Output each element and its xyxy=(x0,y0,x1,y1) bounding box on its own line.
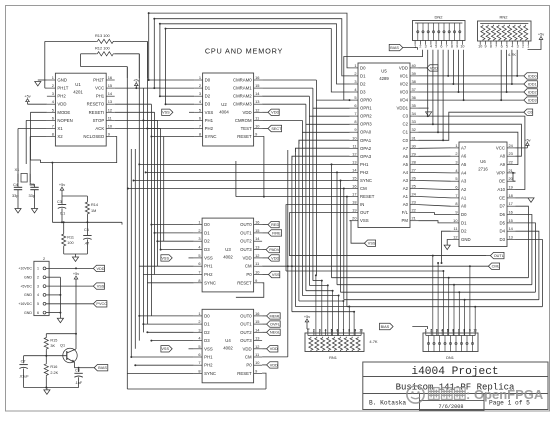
svg-text:4: 4 xyxy=(37,293,39,297)
svg-text:2: 2 xyxy=(354,71,356,76)
svg-text:VDD: VDD xyxy=(399,65,408,70)
svg-text:VSS: VSS xyxy=(161,256,169,260)
ground at U6 GND pin12 xyxy=(444,240,450,250)
svg-text:A7: A7 xyxy=(403,146,409,151)
svg-text:C7: C7 xyxy=(21,360,26,364)
svg-text:U3: U3 xyxy=(225,247,231,252)
svg-text:2: 2 xyxy=(37,276,39,280)
svg-text:C8: C8 xyxy=(75,368,80,372)
flag C0 xyxy=(524,109,533,115)
svg-text:38: 38 xyxy=(412,79,416,84)
svg-text:6: 6 xyxy=(336,329,338,333)
svg-text:VDD: VDD xyxy=(243,346,252,351)
wire mid vertical bus xyxy=(127,41,163,389)
svg-text:15: 15 xyxy=(108,83,112,88)
ground bottom rail Q1 xyxy=(24,387,79,395)
flag VSS at U2 pin5 xyxy=(162,109,194,115)
svg-text:PH1T: PH1T xyxy=(57,86,68,91)
svg-text:A1: A1 xyxy=(461,195,467,200)
svg-text:R16: R16 xyxy=(50,365,57,369)
wire I/O lines to IOD flags xyxy=(419,76,524,100)
svg-text:VSS: VSS xyxy=(272,273,280,277)
svg-text:i4004 Project: i4004 Project xyxy=(411,366,498,378)
svg-text:7: 7 xyxy=(198,270,200,275)
svg-text:RED: RED xyxy=(271,223,279,227)
svg-text:OPA1: OPA1 xyxy=(360,138,372,143)
flag VDD at U5 pin40 xyxy=(419,65,439,71)
svg-text:D2: D2 xyxy=(204,239,210,244)
svg-text:A9: A9 xyxy=(500,162,506,167)
svg-text:19: 19 xyxy=(509,185,513,190)
wire right edge nest verticals xyxy=(516,206,543,307)
svg-text:9: 9 xyxy=(108,132,110,137)
svg-text:CMROM: CMROM xyxy=(235,118,252,123)
svg-text:9: 9 xyxy=(255,278,257,283)
svg-text:5: 5 xyxy=(198,253,200,258)
flag VDD at J2 pin1 xyxy=(46,265,105,271)
svg-text:8: 8 xyxy=(348,329,350,333)
svg-text:8: 8 xyxy=(451,45,453,49)
wire RN1 risers xyxy=(316,275,354,335)
svg-text:VSS: VSS xyxy=(161,347,169,351)
svg-text:0.1: 0.1 xyxy=(60,212,65,216)
svg-text:I/O2: I/O2 xyxy=(400,82,409,87)
svg-text:1: 1 xyxy=(199,75,201,80)
svg-text:17: 17 xyxy=(509,201,513,206)
svg-text:D1: D1 xyxy=(204,230,210,235)
wire U1 NCLOSED loop xyxy=(41,137,117,223)
svg-text:CM: CM xyxy=(245,264,252,269)
svg-text:6: 6 xyxy=(440,45,442,49)
svg-text:R12 100: R12 100 xyxy=(95,46,111,51)
resistor R11 100 xyxy=(62,221,74,254)
svg-text:CML: CML xyxy=(492,265,500,269)
svg-text:9: 9 xyxy=(484,45,486,49)
flag VDD at U4 pin12 xyxy=(262,346,278,352)
svg-text:26: 26 xyxy=(412,176,416,181)
svg-text:5: 5 xyxy=(435,45,437,49)
svg-text:OUT0: OUT0 xyxy=(240,313,252,318)
svg-text:C6: C6 xyxy=(84,228,89,232)
svg-text:3: 3 xyxy=(37,284,39,288)
svg-text:C0: C0 xyxy=(527,111,532,115)
svg-text:RESET: RESET xyxy=(237,371,252,376)
svg-text:17: 17 xyxy=(352,192,356,197)
svg-text:OPR0: OPR0 xyxy=(360,98,372,103)
svg-text:IOD1: IOD1 xyxy=(528,82,537,86)
crystal X1 xyxy=(15,167,35,186)
svg-text:4004: 4004 xyxy=(219,110,229,115)
svg-text:CMRAM0: CMRAM0 xyxy=(233,78,252,83)
svg-text:I/O4: I/O4 xyxy=(400,98,409,103)
svg-text:VDD: VDD xyxy=(271,256,279,260)
svg-text:13: 13 xyxy=(255,245,259,250)
node base row xyxy=(24,355,67,357)
flag SECT at U2 TEST pin10 xyxy=(262,125,282,131)
svg-text:OPR2: OPR2 xyxy=(360,114,372,119)
svg-text:9: 9 xyxy=(469,329,471,333)
svg-text:GND: GND xyxy=(24,293,32,297)
svg-text:21: 21 xyxy=(509,168,513,173)
svg-text:7/6/2008: 7/6/2008 xyxy=(439,404,464,410)
wire bottom rail xyxy=(127,388,266,390)
svg-text:+5v: +5v xyxy=(73,272,79,276)
svg-text:6: 6 xyxy=(455,185,457,190)
svg-text:18: 18 xyxy=(352,200,356,205)
svg-text:11: 11 xyxy=(453,226,457,231)
flag IOD1 xyxy=(524,81,538,87)
flag VSS at J2 pin3 xyxy=(46,283,105,289)
svg-text:36: 36 xyxy=(412,95,416,100)
wire DN2 pulldowns to IOD lines xyxy=(447,50,464,101)
svg-text:3: 3 xyxy=(198,327,200,332)
svg-text:15: 15 xyxy=(255,228,259,233)
wire U3 RESET loop xyxy=(236,161,264,297)
wire bottom nest horizontals xyxy=(286,163,542,306)
svg-text:D0: D0 xyxy=(204,313,210,318)
flag OUTL xyxy=(490,252,504,258)
svg-text:13: 13 xyxy=(509,235,513,240)
svg-text:.01uF: .01uF xyxy=(19,375,29,379)
svg-text:P0: P0 xyxy=(246,272,252,277)
svg-text:IOD2: IOD2 xyxy=(528,90,537,94)
title block xyxy=(363,362,548,411)
svg-text:A8: A8 xyxy=(500,154,506,159)
flag MEML at U4 OUT0 xyxy=(262,313,280,319)
capacitor C6 0.47 xyxy=(83,222,91,254)
svg-text:8: 8 xyxy=(52,132,54,137)
svg-text:15: 15 xyxy=(255,83,259,88)
flag BIAS at Q1 emitter xyxy=(79,365,108,371)
svg-text:D1: D1 xyxy=(461,220,467,225)
svg-text:37: 37 xyxy=(412,87,416,92)
svg-text:D1: D1 xyxy=(360,73,366,78)
svg-text:CMRAM2: CMRAM2 xyxy=(233,94,252,99)
svg-text:VDD: VDD xyxy=(243,255,252,260)
resistor network RN1 4.7K xyxy=(305,329,378,360)
svg-text:PH2T: PH2T xyxy=(93,78,104,83)
svg-text:Q1: Q1 xyxy=(60,344,65,348)
svg-text:BIAS: BIAS xyxy=(98,366,107,370)
wire U5 VSS pin20 to flag xyxy=(350,221,365,244)
svg-text:R13 100: R13 100 xyxy=(95,33,111,38)
op-amp U5 4289 memory interface xyxy=(350,63,419,228)
svg-text:A7: A7 xyxy=(461,145,467,150)
svg-text:7: 7 xyxy=(455,193,457,198)
svg-text:OPR1: OPR1 xyxy=(360,106,372,111)
svg-text:D4: D4 xyxy=(500,229,506,234)
svg-text:3: 3 xyxy=(455,160,457,165)
svg-text:12: 12 xyxy=(453,235,457,240)
flag VSS at U4 pin5 xyxy=(161,346,194,352)
svg-text:OUT0: OUT0 xyxy=(240,222,252,227)
svg-text:RESET: RESET xyxy=(237,280,252,285)
svg-text:OE: OE xyxy=(499,179,505,184)
svg-text:OUT: OUT xyxy=(360,210,369,215)
svg-text:F/L: F/L xyxy=(402,210,409,215)
svg-text:2.2K: 2.2K xyxy=(50,371,58,375)
svg-text:7: 7 xyxy=(52,124,54,129)
resistor R13 100 xyxy=(45,33,148,88)
svg-text:2: 2 xyxy=(455,151,457,156)
svg-text:15: 15 xyxy=(509,218,513,223)
svg-text:4: 4 xyxy=(511,45,513,49)
svg-text:39: 39 xyxy=(412,71,416,76)
svg-text:+10VDC: +10VDC xyxy=(18,267,32,271)
+5v at U1 VCC xyxy=(115,79,161,90)
wire C0 row to flag xyxy=(419,112,524,140)
svg-text:A6: A6 xyxy=(461,154,467,159)
svg-text:4.7K: 4.7K xyxy=(369,339,378,344)
svg-text:3: 3 xyxy=(319,329,321,333)
svg-text:5: 5 xyxy=(52,107,54,112)
svg-text:D3: D3 xyxy=(204,247,210,252)
svg-text:+5v: +5v xyxy=(133,79,139,83)
svg-text:SYNC: SYNC xyxy=(205,134,217,139)
svg-text:22: 22 xyxy=(412,208,416,213)
svg-text:1: 1 xyxy=(455,143,457,148)
svg-text:2: 2 xyxy=(522,45,524,49)
svg-text:SYNC: SYNC xyxy=(204,371,216,376)
svg-text:B. Kotaska: B. Kotaska xyxy=(369,400,406,407)
svg-text:NCLOSED: NCLOSED xyxy=(83,134,104,139)
svg-text:11: 11 xyxy=(255,115,259,120)
svg-text:DN2: DN2 xyxy=(434,15,443,20)
svg-text:6: 6 xyxy=(452,329,454,333)
svg-text:6: 6 xyxy=(354,103,356,108)
svg-text:NEGL: NEGL xyxy=(270,331,280,335)
svg-text:2: 2 xyxy=(198,319,200,324)
wire U5 OUT row to OUTL xyxy=(290,213,491,256)
wire U2 RESET down xyxy=(262,137,265,198)
svg-text:C3: C3 xyxy=(403,114,409,119)
svg-text:6: 6 xyxy=(501,45,503,49)
svg-text:PH1: PH1 xyxy=(96,94,105,99)
svg-text:10: 10 xyxy=(460,45,464,49)
svg-text:D0: D0 xyxy=(360,65,366,70)
svg-text:18: 18 xyxy=(509,193,513,198)
svg-text:2: 2 xyxy=(52,83,54,88)
svg-text:1: 1 xyxy=(527,45,529,49)
capacitor C8 .1uF xyxy=(74,367,82,388)
flag VSS at U3 pin5 xyxy=(161,255,194,261)
svg-text:D0: D0 xyxy=(461,212,467,217)
svg-text:3: 3 xyxy=(354,79,356,84)
svg-text:X1: X1 xyxy=(57,126,63,131)
svg-text:8: 8 xyxy=(198,368,200,373)
svg-text:5: 5 xyxy=(331,329,333,333)
resistor network DN1 xyxy=(423,329,478,360)
flag RED at U3 OUT0 xyxy=(262,221,279,227)
svg-text:12: 12 xyxy=(255,344,259,349)
svg-text:U5: U5 xyxy=(381,69,387,74)
svg-text:VSS: VSS xyxy=(360,218,369,223)
svg-text:OUTL: OUTL xyxy=(494,254,504,258)
svg-text:8: 8 xyxy=(490,45,492,49)
svg-text:D7: D7 xyxy=(500,204,506,209)
svg-text:IOD0: IOD0 xyxy=(528,74,537,78)
svg-text:OPA0: OPA0 xyxy=(360,130,372,135)
svg-text:D1: D1 xyxy=(204,322,210,327)
wire U1 MODE pin5 xyxy=(31,112,47,160)
svg-text:7: 7 xyxy=(446,45,448,49)
svg-text:VSS: VSS xyxy=(162,111,170,115)
watermark logo xyxy=(407,386,424,403)
svg-text:R15: R15 xyxy=(50,339,57,343)
wire group A continuations down to RN1 staircase xyxy=(287,100,355,357)
wire U6 D2 down xyxy=(441,231,451,264)
svg-text:RESETO: RESETO xyxy=(87,102,105,107)
ground at U6 CE xyxy=(516,198,535,203)
svg-text:A4: A4 xyxy=(403,170,409,175)
op-amp U6 2716 EPROM xyxy=(451,142,516,247)
svg-text:9: 9 xyxy=(255,132,257,137)
svg-text:.47: .47 xyxy=(84,242,89,246)
svg-text:3: 3 xyxy=(517,45,519,49)
svg-text:D0: D0 xyxy=(204,222,210,227)
svg-text:PH2: PH2 xyxy=(360,170,369,175)
wire U6 VPP OE xyxy=(512,172,516,181)
ground at J2 even pins xyxy=(46,277,64,323)
svg-text:PVCC: PVCC xyxy=(96,302,107,306)
wire U1 X2 pin8 to crystal xyxy=(30,137,47,174)
svg-text:OUT3: OUT3 xyxy=(240,338,252,343)
op-amp U3 4002 RAM xyxy=(194,218,263,292)
svg-text:PH2: PH2 xyxy=(205,126,214,131)
svg-text:OPA2: OPA2 xyxy=(360,146,372,151)
+5v at U6 VCC xyxy=(516,138,531,148)
svg-text:C3: C3 xyxy=(57,200,62,204)
wire U2 data pins to bus xyxy=(142,79,194,138)
svg-text:C2: C2 xyxy=(403,122,409,127)
svg-text:6: 6 xyxy=(37,311,39,315)
svg-text:OPA3: OPA3 xyxy=(360,154,372,159)
svg-text:PH2: PH2 xyxy=(204,363,213,368)
svg-text:2716: 2716 xyxy=(478,167,488,172)
flag PADV at U3 OUT3 xyxy=(262,246,280,252)
svg-text:D0: D0 xyxy=(205,78,211,83)
svg-text:CMRAM3: CMRAM3 xyxy=(233,102,252,107)
flag NEGL at U4 OUT2 xyxy=(262,329,280,335)
wire U5 F/L PM to U6 data xyxy=(419,213,451,223)
svg-text:RESET: RESET xyxy=(237,134,252,139)
svg-text:D5: D5 xyxy=(500,220,506,225)
flag VDD at U4 P0 xyxy=(262,362,278,368)
svg-text:16: 16 xyxy=(255,311,259,316)
svg-text:8: 8 xyxy=(455,201,457,206)
svg-text:2: 2 xyxy=(199,83,201,88)
svg-text:A0: A0 xyxy=(403,202,409,207)
open triangle at U5 VDD1 xyxy=(419,108,432,116)
flag VDD at U2 pin12 xyxy=(262,109,279,115)
svg-text:11: 11 xyxy=(108,115,112,120)
svg-text:RESETI: RESETI xyxy=(89,110,105,115)
svg-text:10: 10 xyxy=(359,329,363,333)
op-amp U2 4004 CPU xyxy=(194,73,262,146)
svg-text:PADV: PADV xyxy=(269,248,280,252)
svg-text:9: 9 xyxy=(456,45,458,49)
wire C3 C2 C1 rows to U6 address xyxy=(419,116,525,189)
svg-text:VSS: VSS xyxy=(205,110,214,115)
svg-text:2: 2 xyxy=(419,45,421,49)
svg-text:6: 6 xyxy=(198,261,200,266)
svg-text:: OpenFPGA: : OpenFPGA xyxy=(466,387,544,402)
svg-text:VSS: VSS xyxy=(204,346,213,351)
svg-text:12: 12 xyxy=(108,107,112,112)
svg-text:D2: D2 xyxy=(461,229,467,234)
svg-text:23: 23 xyxy=(509,151,513,156)
svg-text:BIAS: BIAS xyxy=(390,46,399,50)
wire RN2 pullups to IOD lines xyxy=(500,50,518,101)
svg-text:32: 32 xyxy=(412,127,416,132)
ground at U1 pin1 xyxy=(35,80,47,86)
svg-text:7: 7 xyxy=(198,360,200,365)
svg-text:A2: A2 xyxy=(461,187,467,192)
wire DN2 pin2 loop to U5 OPR0 xyxy=(344,50,423,101)
svg-text:A0: A0 xyxy=(461,204,467,209)
svg-text:4289: 4289 xyxy=(379,76,389,81)
svg-text:25: 25 xyxy=(412,184,416,189)
svg-text:1: 1 xyxy=(198,220,200,225)
svg-text:+16VDC: +16VDC xyxy=(18,302,32,306)
svg-text:A5: A5 xyxy=(461,162,467,167)
svg-text:OUT2: OUT2 xyxy=(240,239,252,244)
svg-text:4201: 4201 xyxy=(73,90,83,95)
svg-text:OUT1: OUT1 xyxy=(240,322,252,327)
svg-text:1: 1 xyxy=(37,267,39,271)
svg-text:4002: 4002 xyxy=(223,346,233,351)
svg-text:16: 16 xyxy=(352,184,356,189)
svg-text:6: 6 xyxy=(199,115,201,120)
svg-text:2: 2 xyxy=(430,329,432,333)
svg-text:9: 9 xyxy=(455,210,457,215)
svg-text:1M: 1M xyxy=(91,209,96,213)
svg-text:A4: A4 xyxy=(461,170,467,175)
watermark text xyxy=(429,387,544,402)
svg-text:CE: CE xyxy=(499,195,505,200)
svg-text:13: 13 xyxy=(352,159,356,164)
flag VSS below U5 xyxy=(364,240,375,246)
svg-text:GND: GND xyxy=(24,311,32,315)
svg-text:C5: C5 xyxy=(30,182,35,187)
svg-text:A6: A6 xyxy=(403,154,409,159)
svg-text:NOPEN: NOPEN xyxy=(57,118,72,123)
svg-text:4: 4 xyxy=(441,329,443,333)
title CPU AND MEMORY xyxy=(205,47,283,56)
svg-text:5: 5 xyxy=(198,344,200,349)
resistor R12 100 xyxy=(81,46,140,78)
wire U3 CM row to CML flag xyxy=(262,265,488,267)
+5v at RN1 pin1 xyxy=(304,315,310,329)
svg-text:+5v: +5v xyxy=(524,138,530,142)
svg-text:D3: D3 xyxy=(360,90,366,95)
svg-text:10: 10 xyxy=(478,45,482,49)
svg-text:2: 2 xyxy=(313,329,315,333)
wire U4 left pins to bus xyxy=(127,315,193,374)
svg-text:GND: GND xyxy=(24,276,32,280)
svg-text:3K: 3K xyxy=(50,344,55,348)
svg-text:OPR3: OPR3 xyxy=(360,122,372,127)
svg-text:VSS: VSS xyxy=(204,255,213,260)
svg-text:U1: U1 xyxy=(75,82,81,87)
svg-text:3: 3 xyxy=(436,329,438,333)
svg-text:9: 9 xyxy=(354,329,356,333)
svg-text:STOP: STOP xyxy=(93,118,105,123)
svg-text:+5VDC: +5VDC xyxy=(20,284,32,288)
svg-text:MODE: MODE xyxy=(57,110,70,115)
svg-text:15: 15 xyxy=(255,319,259,324)
svg-text:GND: GND xyxy=(461,237,471,242)
